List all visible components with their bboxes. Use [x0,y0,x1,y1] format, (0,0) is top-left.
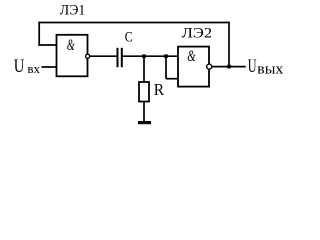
ground symbol [138,121,151,124]
svg-text:C: C [125,29,133,45]
wire input Uvx to LE1 [42,66,57,68]
svg-text:U: U [14,57,25,77]
wire into LE2 bottom input [166,78,178,80]
inversion bubble at LE2 output [207,64,212,69]
node junction to LE2 lower input [164,54,168,58]
logic gate LE1 body [57,35,88,77]
svg-text:ЛЭ1: ЛЭ1 [60,3,86,19]
wire down to resistor R [143,56,145,82]
wire LE1 output to capacitor C [90,55,117,57]
node junction feedback tap on output [227,65,231,69]
svg-text:вх: вх [27,61,40,76]
logic gate LE2 body [178,47,209,87]
wire capacitor to LE2 input [123,55,179,57]
wire LE1 top input [38,44,56,46]
svg-text:U: U [248,57,257,77]
svg-text:&: & [67,37,75,54]
wire feedback left vertical [38,22,40,46]
wire resistor R to ground [143,102,145,122]
svg-text:&: & [187,48,196,65]
wire feedback top horizontal (LE2 output to LE1 input) [38,22,230,24]
resistor R body [139,82,149,102]
capacitor C left plate [117,48,119,67]
inversion bubble at LE1 output [86,54,90,58]
wire feedback right vertical [228,22,230,67]
svg-text:R: R [154,80,164,99]
capacitor C right plate [121,48,123,67]
wire junction down toward LE2 bottom input [165,56,167,78]
svg-text:вых: вых [257,62,284,78]
svg-text:ЛЭ2: ЛЭ2 [182,26,212,42]
wire LE2 output to Uvyx [212,66,246,68]
node junction to resistor R [142,54,146,58]
